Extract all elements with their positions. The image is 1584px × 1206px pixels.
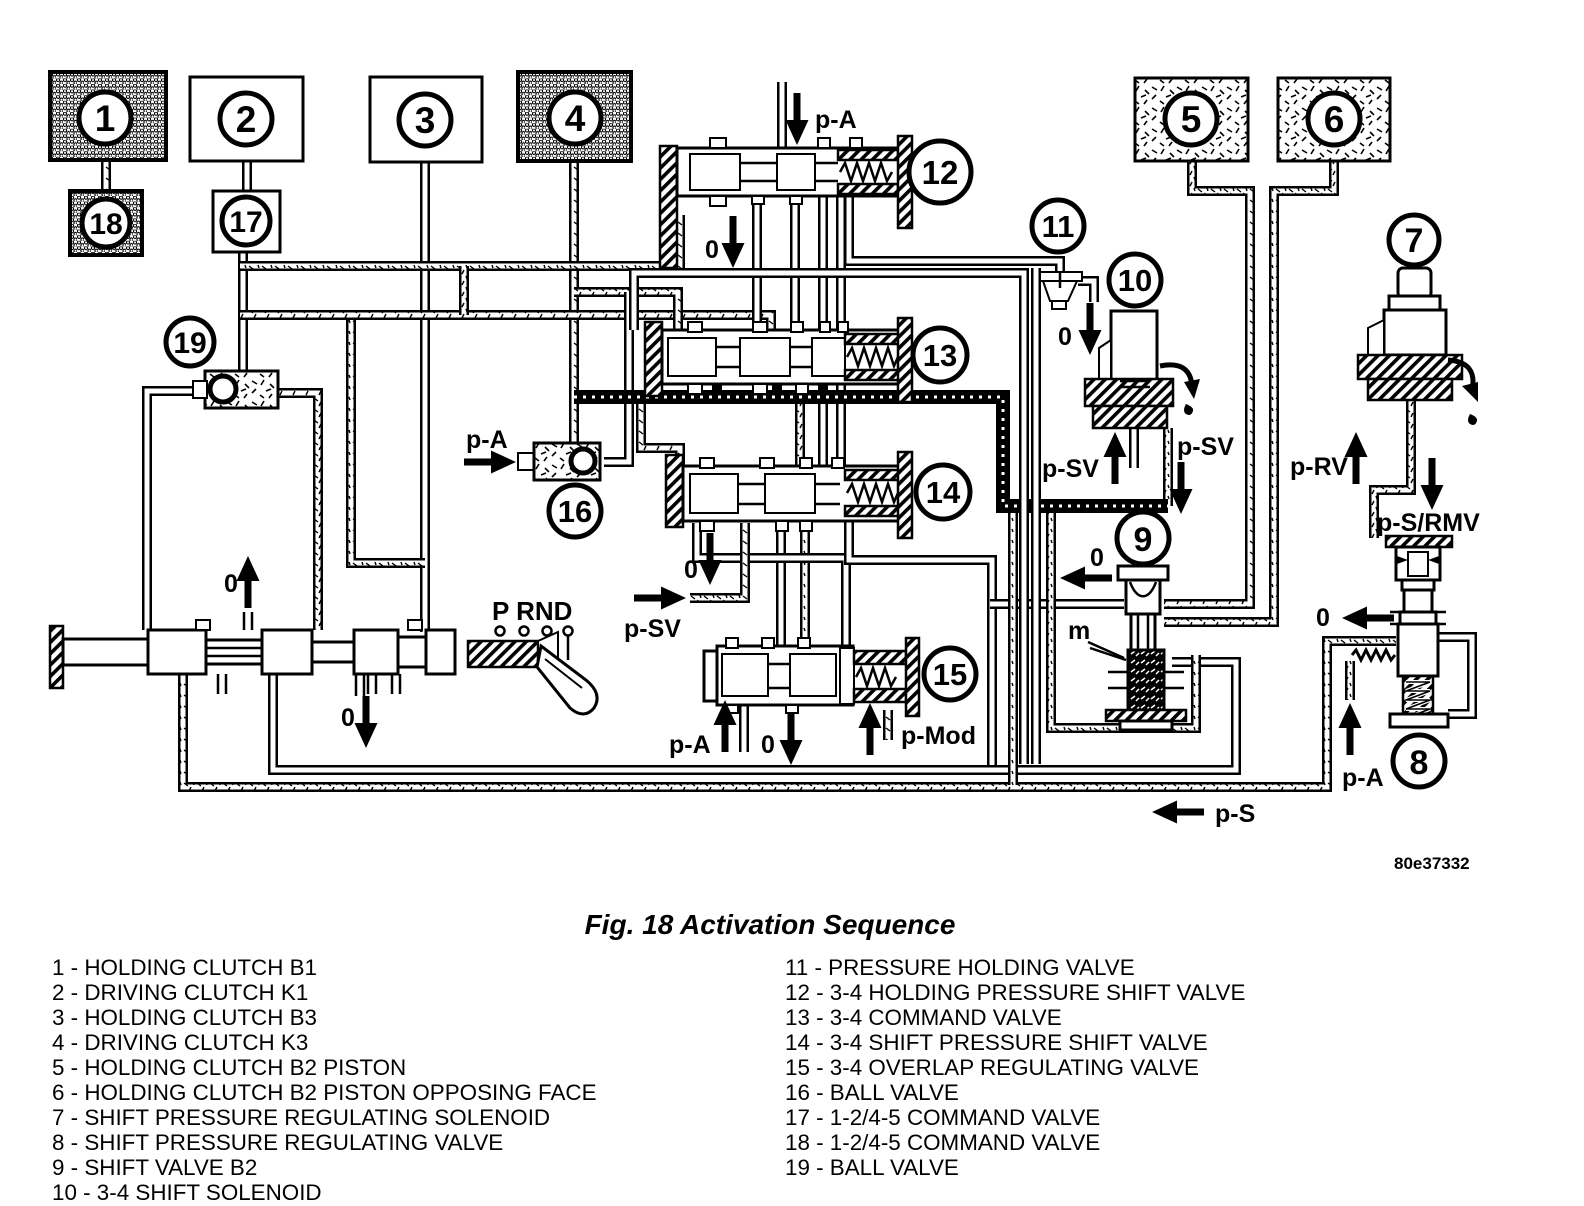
wire solenoid 10 right port riser [1163,428,1173,506]
svg-text:0: 0 [224,570,238,598]
node circle 12 [909,141,971,203]
manual valve top stubs [196,620,210,630]
ball valve 16 [518,453,534,470]
wire p-SV feed into valve 14 [690,523,745,598]
node circle 13 [913,328,967,382]
arrow p-SV down right of solenoid 10 [1170,462,1193,514]
wire ball valve 19 left port to manual valve [147,391,207,630]
svg-text:6 - HOLDING CLUTCH B2 PISTON O: 6 - HOLDING CLUTCH B2 PISTON OPPOSING FA… [52,1080,597,1105]
solenoid 7 spill arrow [1448,360,1473,390]
node circle 10 [1109,254,1161,306]
end wall valve 14 [898,452,912,538]
svg-text:16 - BALL VALVE: 16 - BALL VALVE [785,1080,959,1105]
spring valve 13 [845,334,901,344]
node circle 3 [399,94,451,146]
arrow 0 left at valve 9 [1060,567,1112,590]
svg-text:3 - HOLDING CLUTCH B3: 3 - HOLDING CLUTCH B3 [52,1005,317,1030]
svg-text:0: 0 [1058,323,1072,351]
svg-text:12 - 3-4 HOLDING PRESSURE SHIF: 12 - 3-4 HOLDING PRESSURE SHIFT VALVE [785,980,1245,1005]
wire solenoid 10 bottom stub [1129,428,1139,468]
box 6 holding clutch B2 piston opposing face [1278,78,1390,161]
node circle 9 [1117,512,1169,564]
svg-text:P RND: P RND [492,596,572,626]
wire valve 12 stub to valve 13 [752,194,762,332]
svg-text:p-RV: p-RV [1290,453,1348,481]
svg-text:12: 12 [922,154,959,191]
svg-text:17: 17 [229,206,262,239]
selector lever hook [537,646,597,714]
svg-text:11 - PRESSURE HOLDING VALVE: 11 - PRESSURE HOLDING VALVE [785,955,1135,980]
svg-text:15 - 3-4 OVERLAP REGULATING VA: 15 - 3-4 OVERLAP REGULATING VALVE [785,1055,1199,1080]
manual valve bottom stubs [218,674,400,694]
node circle 1 [79,92,131,144]
arrow p-A up below valve 15 [714,700,737,752]
svg-text:p-Mod: p-Mod [901,722,976,750]
manual selector valve body [148,630,206,674]
svg-text:17 - 1-2/4-5 COMMAND VALVE: 17 - 1-2/4-5 COMMAND VALVE [785,1105,1100,1130]
svg-text:9: 9 [1134,521,1153,559]
svg-text:5 - HOLDING CLUTCH B2 PISTON: 5 - HOLDING CLUTCH B2 PISTON [52,1055,406,1080]
wire textured down to bottom p-S line [1008,510,1018,785]
wire textured horizontal y292 from box4 line to valve 13 [574,292,678,332]
spool lands valve 12 [690,154,740,190]
svg-text:9 - SHIFT VALVE B2: 9 - SHIFT VALVE B2 [52,1155,257,1180]
svg-text:2 - DRIVING CLUTCH K1: 2 - DRIVING CLUTCH K1 [52,980,308,1005]
svg-text:p-SV: p-SV [624,615,681,643]
node circle 16 [549,485,601,537]
svg-text:80e37332: 80e37332 [1394,854,1470,873]
wire valve 14 right-bottom to bottom line and valve 9 left [849,519,992,767]
valve 8 shift pressure regulating valve [1386,536,1452,547]
arrow 0 down below valve 14 [699,533,722,585]
node circle 15 [924,648,976,700]
spool lands valve 14 [690,474,738,513]
manual selector valve inlet channel [63,639,148,665]
wire box3 down to manual valve [420,159,430,632]
arrow 0 down below valve 12 [722,216,745,268]
selector lever hatched cylinder [468,641,538,667]
svg-text:p-SV: p-SV [1177,433,1234,461]
wire solenoid 7 down to valve 8 [1374,398,1411,538]
wire pair between valve 13 and valve 14 [818,382,828,470]
arrow p-Mod up below valve 15 [859,703,882,755]
spring valve 12 [838,150,898,160]
svg-text:8 - SHIFT PRESSURE REGULATING: 8 - SHIFT PRESSURE REGULATING VALVE [52,1130,503,1155]
wire box1 to box18 [101,158,111,193]
svg-text:14: 14 [926,475,961,510]
svg-text:p-A: p-A [815,106,857,134]
svg-text:p-SV: p-SV [1042,455,1099,483]
wire long vertical x1038 [1031,268,1041,764]
valve 13 3-4 command valve [645,322,662,396]
svg-text:19 - BALL VALVE: 19 - BALL VALVE [785,1155,959,1180]
wire valve 8 p-A stub [1345,661,1355,700]
node circle 11 [1032,200,1084,252]
wire jog from y315 line down to manual valve [351,320,425,563]
svg-text:14 - 3-4 SHIFT PRESSURE SHIFT: 14 - 3-4 SHIFT PRESSURE SHIFT VALVE [785,1030,1208,1055]
svg-text:13 - 3-4 COMMAND VALVE: 13 - 3-4 COMMAND VALVE [785,1005,1062,1030]
svg-text:0: 0 [684,556,698,584]
wire valve 14 bottom jog right to valve 15 [697,523,846,650]
spool lands valve 15 [722,654,768,696]
wire jog x464 between horizontals [459,266,469,315]
valve 14 3-4 shift pressure shift valve [666,455,683,527]
thick main pressure channel under valve 13 [574,397,1168,506]
valve 15 3-4 overlap regulating valve [704,651,717,701]
valve 12 3-4 holding pressure shift valve [660,146,677,268]
wire box2 to box17 [242,158,252,193]
svg-text:8: 8 [1410,744,1429,782]
svg-text:0: 0 [1090,544,1104,572]
wire p-A into valve 12 top [777,82,787,150]
wire valve 15 spring stub [883,710,893,740]
node circle 2 [220,93,272,145]
svg-text:Fig. 18 Activation Sequence: Fig. 18 Activation Sequence [585,909,956,940]
wire box4 down to ball valve 16 [569,159,579,445]
node circle 14 [916,465,970,519]
svg-text:13: 13 [923,338,957,373]
box 4 driving clutch K3 [518,72,631,161]
svg-text:p-A: p-A [669,731,711,759]
valve 9 base [1106,710,1186,721]
box 1 holding clutch B1 [50,72,166,160]
wire container under valve 9 [1051,506,1196,728]
svg-text:18 - 1-2/4-5 COMMAND VALVE: 18 - 1-2/4-5 COMMAND VALVE [785,1130,1100,1155]
svg-text:4 - DRIVING CLUTCH K3: 4 - DRIVING CLUTCH K3 [52,1030,308,1055]
spring box valve 8 [1403,676,1433,720]
wire valve 12 stub2 to valve 13 [790,194,800,332]
svg-text:p-A: p-A [1342,764,1384,792]
svg-text:0: 0 [761,731,775,759]
svg-text:7 - SHIFT PRESSURE REGULATING: 7 - SHIFT PRESSURE REGULATING SOLENOID [52,1105,550,1130]
svg-text:p-A: p-A [466,426,508,454]
svg-text:10 - 3-4 SHIFT SOLENOID: 10 - 3-4 SHIFT SOLENOID [52,1180,322,1205]
arrow 0 down funnel 11 [1079,303,1102,355]
svg-text:2: 2 [236,99,257,140]
spring valve 14 [845,470,901,480]
wire bottom plain line [273,662,1236,770]
arrow 0 left at valve 8 [1342,607,1394,630]
svg-text:1 - HOLDING CLUTCH B1: 1 - HOLDING CLUTCH B1 [52,955,317,980]
wire funnel 11 right outlet [1078,281,1094,302]
wire textured horizontal y315 long [240,315,771,332]
box 5 holding clutch B2 piston [1135,78,1248,161]
solenoid 10 3-4 shift solenoid [1111,311,1157,381]
node circle 6 [1308,93,1360,145]
wire valve 13 bottom to valve 14 top [795,404,805,470]
valve 9 shift valve B2 [1118,566,1168,580]
spring box valve 15 [840,648,854,704]
wire valve 14 bottom to valve 15 top [776,519,786,650]
wire valve 15 bottom stub [739,703,749,752]
arrow 0 down below valve 15 [780,713,803,765]
wire valve 12 bottom to funnel 11 [849,194,1060,276]
end wall valve 12 [898,136,912,228]
wire ball valve 19 right port to manual valve [276,393,318,630]
svg-text:7: 7 [1405,222,1424,260]
manual selector valve left wall [50,626,63,688]
arrow p-S left on bottom line [1152,801,1204,824]
arrow p-SV up into solenoid 10 [1104,432,1127,484]
arrow 0 down below manual valve [355,696,378,748]
svg-text:5: 5 [1181,99,1202,140]
svg-text:0: 0 [705,236,719,264]
svg-text:m: m [1068,617,1090,645]
end wall valve 15 [906,638,919,716]
wire ball valve 16 riser [604,292,629,462]
solenoid 7 shift pressure regulating solenoid [1398,268,1431,298]
solenoid 10 spill arrow [1160,365,1192,386]
valve 13 bottom port notches [712,384,722,393]
node circle 19 [166,318,214,366]
wire branch to valve 9 left port [990,599,1124,609]
svg-text:6: 6 [1324,99,1345,140]
wire bottom textured p-S line to valve 8 left [183,641,1396,787]
box 18 command valve 1-2/4-5 [70,191,142,255]
arrow p-A down into valve 12 [786,93,809,145]
svg-text:10: 10 [1118,263,1152,298]
arrow down right of solenoid 7 channel [1421,458,1444,510]
arrow p-SV right into valve 14 channel [634,587,686,610]
valve 8 mini spring inlet [1352,650,1395,660]
svg-text:1: 1 [95,98,116,139]
mass m block valve 9 [1128,650,1164,710]
ball valve 19 [205,371,278,408]
node circle 4 [549,92,601,144]
node circle 5 [1165,93,1217,145]
node circle 8 [1393,735,1445,787]
svg-text:3: 3 [415,100,436,141]
node circle 17 [222,197,270,245]
arrow p-A right into ball valve 16 [464,451,516,474]
arrow p-RV up left of solenoid 7 channel [1345,432,1368,484]
node circle 7 [1389,215,1439,265]
svg-text:16: 16 [558,494,592,529]
pressure holding valve 11 funnel [1040,272,1082,281]
wire pair2 between valve 13 and valve 14 [836,382,846,470]
wire valve 13 left-bottom jog to valve 14 [641,404,680,470]
wire box5 to shift valve 9 upper right [1164,159,1250,604]
wire box17 down to ball valve 19 [238,250,248,371]
end wall valve 13 [898,318,912,402]
arrow p-A up below valve 8 [1339,703,1362,755]
wire long vertical x1027 [634,273,1024,764]
box 3 holding clutch B3 [370,77,482,162]
arrow 0 up above manual valve [237,556,260,608]
box 17 command valve 1-2/4-5 [213,191,280,252]
svg-text:11: 11 [1042,209,1075,244]
svg-text:0: 0 [341,704,355,732]
wire valve 12 pair2 to valve 13 [836,194,846,332]
svg-text:19: 19 [173,327,206,360]
svg-text:0: 0 [1316,604,1330,632]
svg-text:15: 15 [933,657,967,692]
node circle 18 [82,199,130,247]
svg-text:p-S: p-S [1215,800,1255,828]
wire valve 14 bottom to valve 15 top textured [800,521,810,650]
svg-text:p-S/RMV: p-S/RMV [1377,509,1480,537]
wire box6 to shift valve 9 lower right [1164,159,1334,622]
svg-text:4: 4 [565,98,586,139]
svg-text:18: 18 [89,208,122,241]
box 2 driving clutch K1 [190,77,303,161]
wire textured horizontal y266 from box17 line to valve 12 left [240,215,680,266]
wire valve 8 right loop [1438,637,1472,714]
selector detent circles P R N D [496,627,505,636]
spool lands valve 13 [668,338,716,376]
wire valve 12 pair to valve 13 [818,194,828,332]
